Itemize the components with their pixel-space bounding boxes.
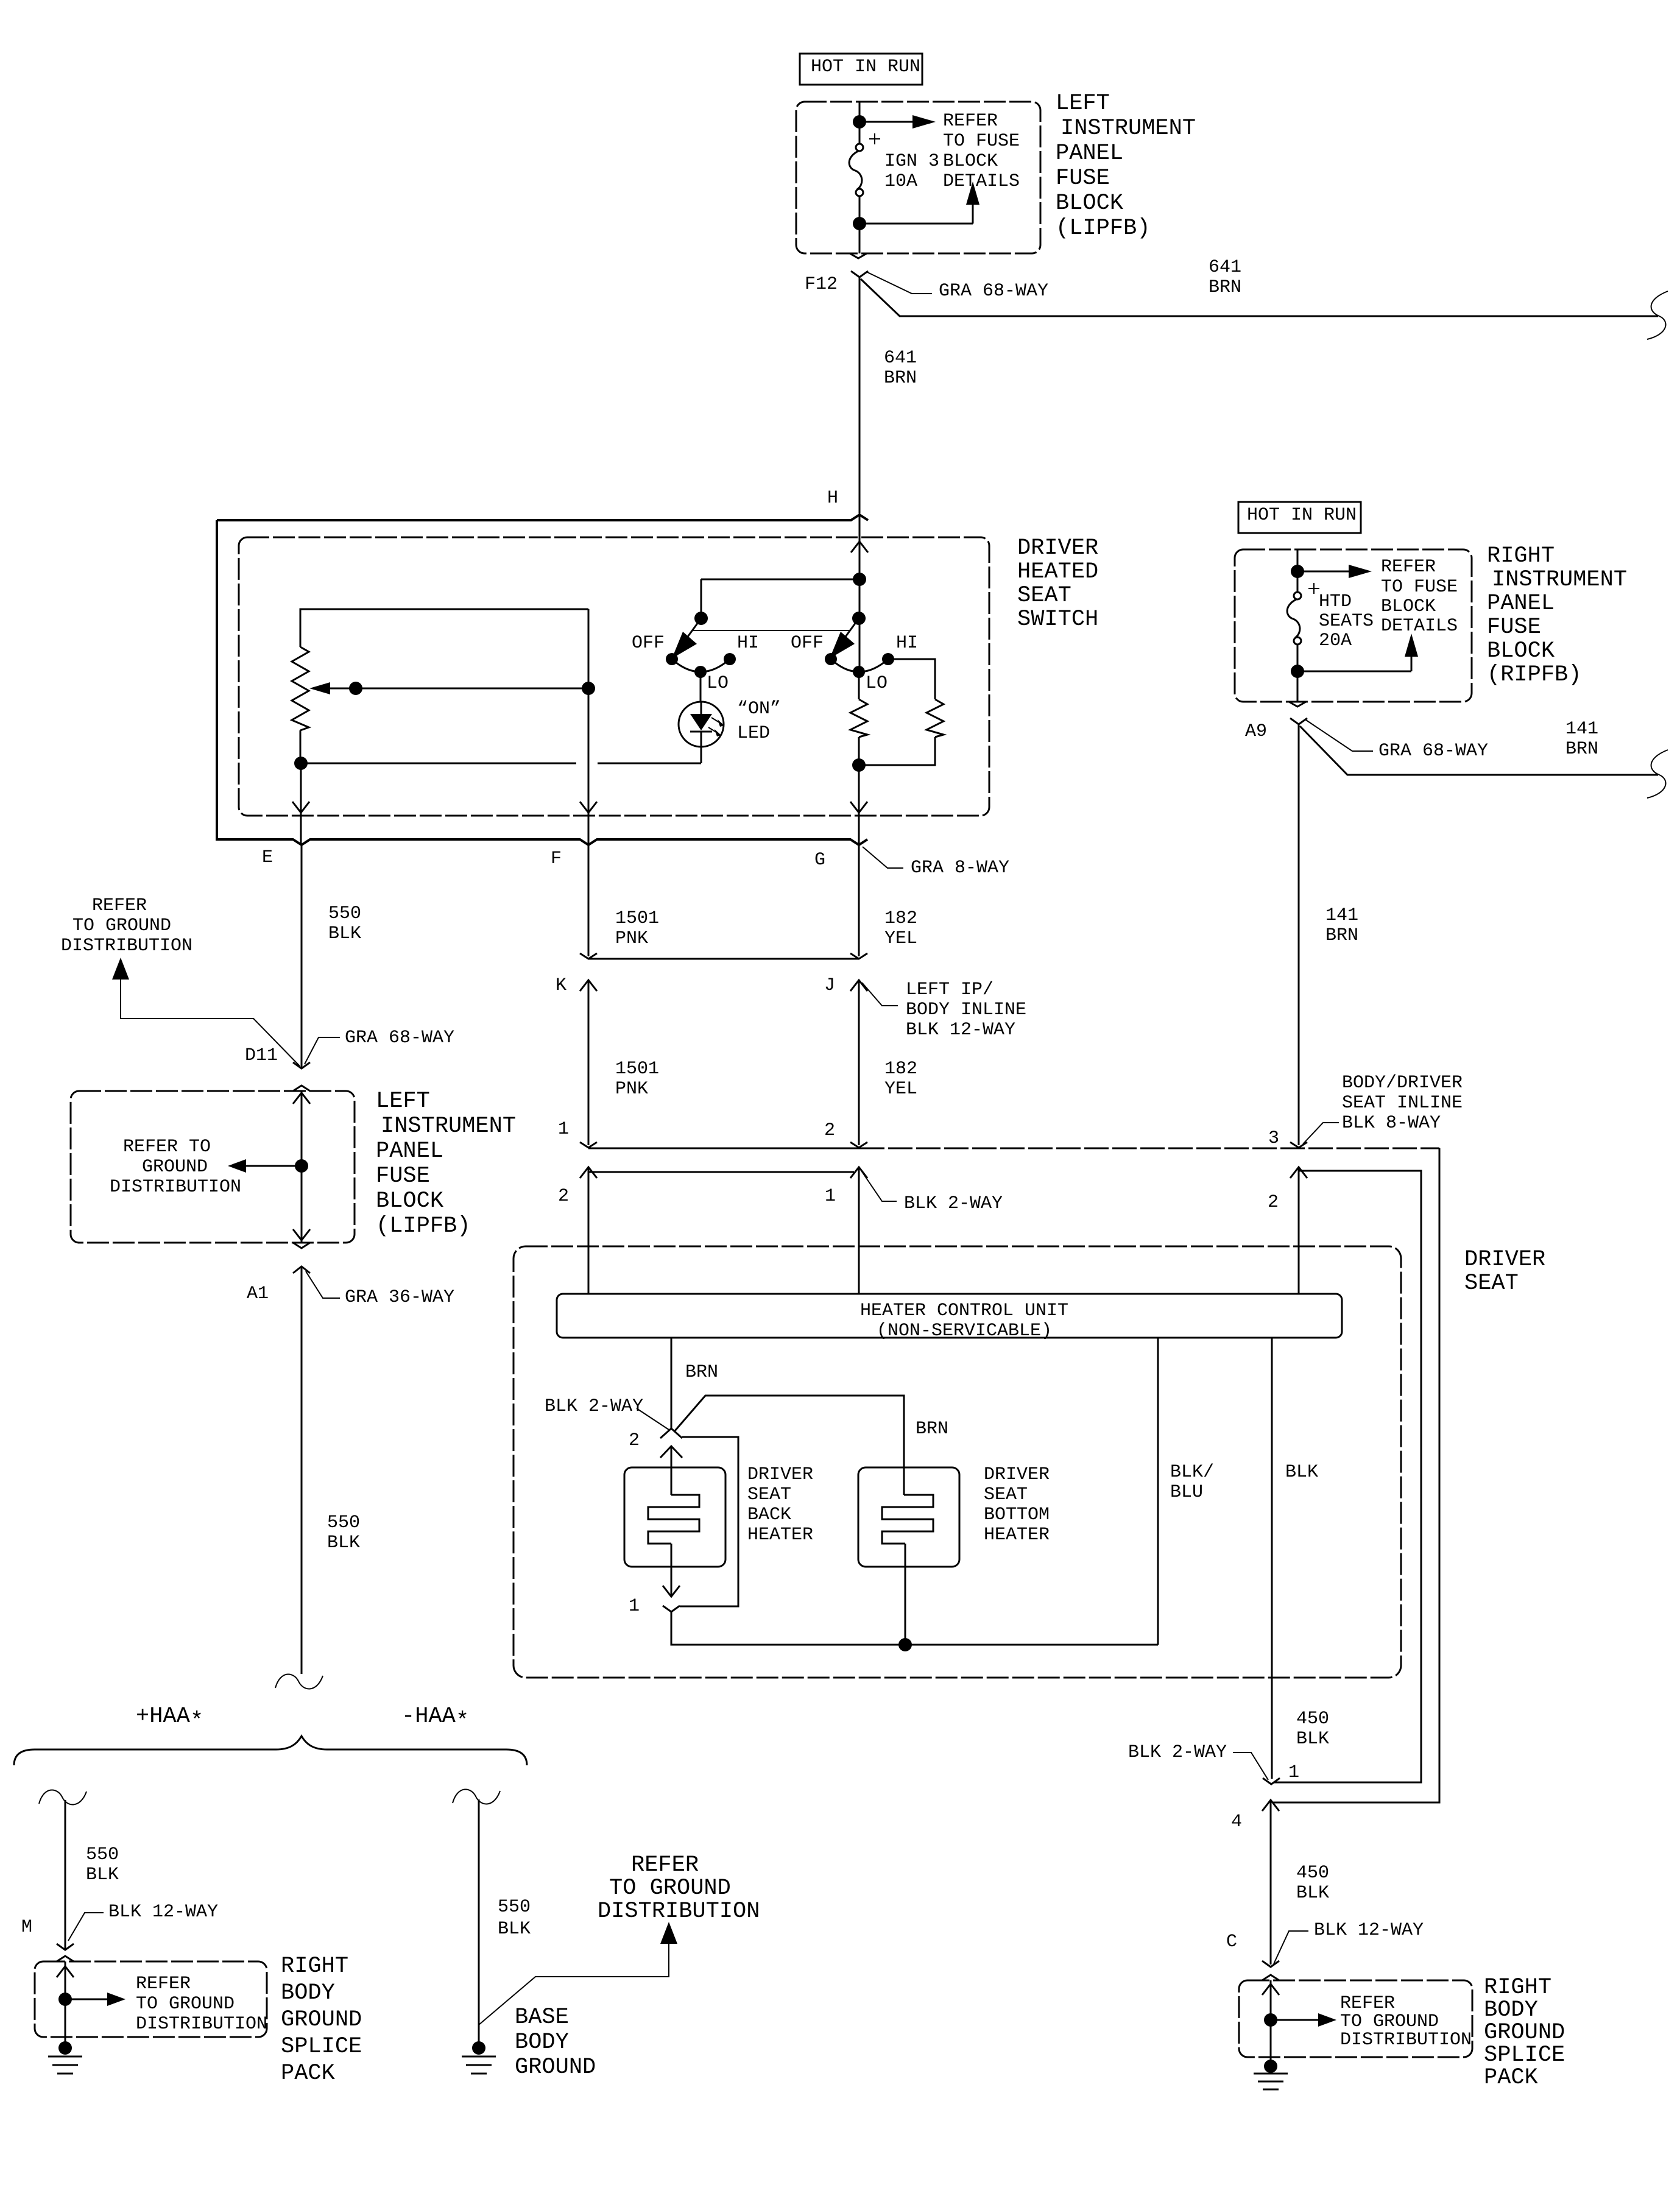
ground (left splice pack) (48, 2037, 82, 2074)
wire BRN heater control to connector 2 (671, 1338, 718, 1428)
svg-text:PNK: PNK (615, 1079, 648, 1100)
svg-text:550: 550 (328, 903, 361, 924)
svg-text:BLK 12-WAY: BLK 12-WAY (1314, 1920, 1424, 1941)
svg-text:PACK: PACK (281, 2061, 336, 2086)
svg-text:(RIPFB): (RIPFB) (1487, 662, 1581, 688)
wire 641 BRN off-page to right (861, 257, 1668, 339)
svg-text:LO: LO (707, 673, 729, 694)
leader BODY/DRIVER SEAT INLINE BLK 8-WAY (1303, 1073, 1463, 1144)
switch coupling line (692, 630, 851, 631)
svg-text:BLK: BLK (327, 1533, 360, 1553)
leader BLK 2-WAY (bottom right) (1128, 1742, 1268, 1780)
svg-text:2: 2 (558, 1186, 569, 1207)
svg-text:BRN: BRN (1325, 925, 1358, 946)
potentiometer wiper arm (309, 682, 595, 695)
driver heated seat switch outer boundary (217, 520, 1098, 845)
svg-text:RIGHT: RIGHT (1484, 1975, 1551, 2000)
svg-text:SPLICE: SPLICE (281, 2034, 362, 2060)
svg-text:450: 450 (1296, 1863, 1329, 1883)
svg-text:DRIVER: DRIVER (1464, 1247, 1545, 1273)
svg-text:HEATED: HEATED (1017, 559, 1098, 585)
svg-text:TO GROUND: TO GROUND (72, 916, 171, 936)
svg-text:BODY INLINE: BODY INLINE (906, 1000, 1026, 1020)
wire from H into switch (851, 515, 868, 618)
svg-text:YEL: YEL (884, 1079, 917, 1100)
svg-text:BODY: BODY (1484, 1997, 1538, 2023)
svg-text:LEFT: LEFT (1056, 91, 1110, 116)
svg-text:SEAT: SEAT (1017, 583, 1071, 609)
DRIVER SEAT label (1464, 1247, 1545, 1296)
svg-text:TO FUSE: TO FUSE (943, 131, 1020, 152)
splice pack internal wire and arrow (left) (57, 1961, 267, 2037)
svg-text:FUSE: FUSE (1056, 166, 1110, 191)
terminals E F G labels (262, 847, 825, 870)
svg-text:LEFT: LEFT (376, 1089, 430, 1114)
svg-text:FUSE: FUSE (376, 1163, 430, 1189)
node H (217, 488, 868, 520)
svg-text:F: F (551, 849, 562, 869)
wires from pins into heater control unit (588, 1167, 859, 1294)
svg-text:PACK: PACK (1484, 2065, 1539, 2091)
leader GRA 68-WAY (A9) (1306, 720, 1488, 761)
svg-text:(LIPFB): (LIPFB) (1056, 216, 1150, 241)
switch 1 (LED) pivot and blade (672, 612, 708, 658)
svg-text:1: 1 (825, 1186, 836, 1207)
svg-text:641: 641 (1209, 257, 1241, 278)
inline 8-way wire loop to pin 4 (1273, 1148, 1439, 1802)
svg-text:3: 3 (1268, 1128, 1279, 1149)
wire pot top to terminal F (580, 609, 597, 845)
svg-text:REFER: REFER (92, 895, 147, 916)
refer to fuse block details (right) with arrows (1297, 557, 1458, 671)
svg-text:HEATER: HEATER (984, 1525, 1050, 1545)
connector A9 break (1245, 702, 1307, 742)
svg-text:TO FUSE: TO FUSE (1381, 577, 1458, 598)
wire pot bottom to terminal E (292, 763, 309, 845)
svg-text:(NON-SERVICABLE): (NON-SERVICABLE) (877, 1321, 1052, 1341)
connector M break (21, 1917, 74, 1950)
svg-text:2: 2 (1268, 1192, 1279, 1213)
F12 terminal and connector break (805, 253, 868, 295)
svg-text:SEAT: SEAT (747, 1485, 791, 1505)
node J (824, 975, 867, 996)
leader BLK 12-WAY (C) (1274, 1920, 1424, 1964)
svg-text:A9: A9 (1245, 721, 1267, 742)
svg-text:OFF: OFF (632, 633, 665, 654)
connector break 4 (1231, 1800, 1329, 1965)
left instrument panel fuse block LIPFB (ground side box) (71, 1086, 516, 1248)
svg-text:BLK: BLK (1296, 1883, 1329, 1904)
svg-text:BOTTOM: BOTTOM (984, 1505, 1050, 1525)
svg-text:INSTRUMENT: INSTRUMENT (381, 1114, 516, 1139)
svg-text:GROUND: GROUND (515, 2055, 596, 2080)
svg-text:GRA 8-WAY: GRA 8-WAY (911, 858, 1009, 878)
refer to fuse block details (left) with arrows (859, 111, 1020, 224)
wire 641 BRN from F12 down to H (859, 277, 917, 514)
svg-text:DISTRIBUTION: DISTRIBUTION (598, 1899, 760, 1924)
svg-text:BLOCK: BLOCK (1487, 638, 1555, 664)
svg-text:20A: 20A (1319, 630, 1352, 651)
svg-text:HEATER CONTROL UNIT: HEATER CONTROL UNIT (860, 1301, 1068, 1321)
wire BRN branch to seat bottom heater (674, 1396, 948, 1495)
switch 2 (heater) pivot and blade (830, 612, 866, 672)
svg-text:*: * (456, 1709, 469, 1734)
svg-text:OFF: OFF (791, 633, 824, 654)
refer to ground distribution (upper left) (61, 895, 300, 1066)
svg-text:DISTRIBUTION: DISTRIBUTION (61, 936, 192, 956)
svg-text:182: 182 (884, 908, 917, 929)
svg-text:BLK/: BLK/ (1170, 1462, 1214, 1483)
svg-text:LEFT IP/: LEFT IP/ (906, 980, 994, 1000)
connector D11 break (245, 1045, 310, 1068)
leader GRA 68-WAY (D11) (305, 1028, 454, 1064)
right instrument panel fuse block RIPFB component box (1235, 543, 1627, 702)
svg-text:DRIVER: DRIVER (984, 1464, 1050, 1485)
svg-text:F12: F12 (805, 274, 838, 295)
svg-text:M: M (21, 1917, 32, 1938)
svg-text:PANEL: PANEL (1056, 141, 1123, 166)
svg-text:-HAA: -HAA (401, 1704, 456, 1729)
svg-text:HEATER: HEATER (747, 1525, 813, 1545)
svg-text:BLOCK: BLOCK (376, 1188, 444, 1214)
brace +HAA* / -HAA* (14, 1704, 527, 1765)
svg-text:182: 182 (884, 1059, 917, 1079)
wire 550 BLK from A1 down (275, 1266, 360, 1689)
svg-text:2: 2 (629, 1430, 640, 1451)
svg-text:G: G (814, 850, 825, 870)
svg-text:GRA 68-WAY: GRA 68-WAY (345, 1028, 454, 1048)
wire inside LIPFB with ground distribution arrow (110, 1091, 310, 1243)
svg-text:HOT IN RUN: HOT IN RUN (1247, 505, 1357, 526)
svg-text:BODY: BODY (281, 1980, 335, 2006)
right body ground splice pack box (1239, 1975, 1565, 2091)
svg-text:4: 4 (1231, 1812, 1242, 1832)
svg-text:BRN: BRN (916, 1419, 948, 1439)
svg-text:450: 450 (1296, 1709, 1329, 1729)
svg-text:1: 1 (629, 1596, 640, 1617)
svg-text:HTD: HTD (1319, 591, 1352, 612)
svg-text:BLK 2-WAY: BLK 2-WAY (545, 1396, 643, 1417)
svg-text:SEAT INLINE: SEAT INLINE (1342, 1093, 1463, 1114)
connector break 2 (BLK 2-WAY) (629, 1428, 682, 1458)
svg-text:550: 550 (327, 1513, 360, 1533)
left instrument panel fuse block LIPFB (top component box) (796, 91, 1196, 253)
svg-text:BLU: BLU (1170, 1482, 1203, 1503)
svg-text:J: J (824, 975, 835, 996)
svg-text:BRN: BRN (884, 368, 917, 389)
right body ground splice pack box (left) (35, 1954, 362, 2086)
wire 182 YEL terminal G to J (850, 845, 917, 959)
wire 550 BLK terminal E to D11 (302, 845, 361, 1068)
connector break 1 (element return) (629, 1586, 680, 1617)
svg-text:K: K (556, 975, 566, 996)
wire 1501 PNK K to pin 1 (558, 980, 659, 1148)
svg-text:2: 2 (824, 1120, 835, 1141)
svg-text:PANEL: PANEL (376, 1139, 443, 1164)
wire LED to bottom rail (301, 763, 701, 764)
wire BLK/BLU heater control to rail (1158, 1338, 1214, 1645)
svg-text:DRIVER: DRIVER (1017, 535, 1098, 561)
svg-text:GROUND: GROUND (142, 1157, 208, 1177)
switch inner detail box (239, 537, 989, 816)
svg-text:A1: A1 (247, 1283, 269, 1304)
svg-text:BLK 12-WAY: BLK 12-WAY (108, 1902, 218, 1922)
leader GRA 36-WAY (A1) (306, 1271, 454, 1308)
base body ground symbol (462, 2005, 596, 2080)
svg-text:DISTRIBUTION: DISTRIBUTION (136, 2014, 267, 2035)
svg-text:GRA 36-WAY: GRA 36-WAY (345, 1287, 454, 1308)
LED "ON" indicator (679, 672, 781, 763)
svg-text:LO: LO (866, 673, 888, 694)
seat connector pin 2 to heater control unit (1268, 1167, 1421, 1782)
wire 550 BLK (+HAA) down to M (39, 1790, 119, 1949)
svg-text:SPLICE: SPLICE (1484, 2042, 1565, 2068)
svg-text:TO GROUND: TO GROUND (609, 1876, 731, 1901)
left IP body inline connector face (588, 958, 859, 960)
svg-text:GROUND: GROUND (281, 2007, 362, 2033)
svg-text:BLK 2-WAY: BLK 2-WAY (1128, 1742, 1227, 1763)
svg-text:REFER: REFER (1340, 1993, 1395, 2014)
svg-text:BLK: BLK (86, 1865, 119, 1885)
svg-text:SEAT: SEAT (984, 1485, 1028, 1505)
switch 2 contacts OFF LO HI (791, 633, 918, 694)
connector C break (1226, 1932, 1279, 1967)
svg-text:*: * (190, 1709, 203, 1734)
svg-text:PNK: PNK (615, 928, 648, 949)
svg-text:BRN: BRN (685, 1362, 718, 1383)
svg-text:RIGHT: RIGHT (281, 1954, 348, 1979)
leader BLK 2-WAY (seat) (545, 1396, 669, 1430)
wire 141 BRN off-page to right (1300, 719, 1668, 798)
heater control unit (557, 1294, 1342, 1341)
wire element return to ground rail (671, 1612, 1158, 1651)
svg-text:BODY/DRIVER: BODY/DRIVER (1342, 1073, 1463, 1093)
node K (556, 975, 597, 996)
switch 1 contacts OFF LO HI (632, 633, 759, 694)
wire branch to switch 1 (701, 579, 859, 618)
svg-text:+HAA: +HAA (136, 1704, 191, 1729)
svg-text:REFER: REFER (136, 1974, 191, 1994)
svg-text:550: 550 (86, 1845, 119, 1865)
svg-text:1501: 1501 (615, 1059, 659, 1079)
svg-text:YEL: YEL (884, 928, 917, 949)
wire 550 BLK (-HAA) down to base body ground (453, 1789, 531, 2025)
svg-text:D11: D11 (245, 1045, 278, 1066)
svg-text:BLK: BLK (328, 923, 361, 944)
wire 182 YEL J to pin 2 (824, 980, 917, 1148)
svg-text:REFER: REFER (943, 111, 998, 132)
svg-text:BASE: BASE (515, 2005, 569, 2030)
connector A1 break (247, 1266, 310, 1304)
fuse HTD SEATS 20A (1287, 549, 1374, 702)
svg-text:641: 641 (884, 348, 917, 369)
svg-text:DETAILS: DETAILS (1381, 616, 1458, 637)
svg-text:SEAT: SEAT (1464, 1271, 1519, 1296)
wire 141 BRN A9 down to pin 3 (1268, 724, 1358, 1149)
svg-text:10A: 10A (884, 171, 917, 192)
svg-text:“ON”: “ON” (737, 699, 781, 719)
svg-text:141: 141 (1325, 905, 1358, 926)
svg-text:E: E (262, 847, 273, 868)
svg-text:DRIVER: DRIVER (747, 1464, 813, 1485)
svg-text:BLOCK: BLOCK (1381, 596, 1436, 617)
svg-text:GRA 68-WAY: GRA 68-WAY (1378, 741, 1488, 761)
svg-text:BLOCK: BLOCK (1056, 191, 1124, 216)
HOT IN RUN label box (left) (800, 54, 922, 85)
wire 1501 PNK terminal F to K (580, 845, 659, 959)
svg-text:BLK 8-WAY: BLK 8-WAY (1342, 1113, 1441, 1134)
wire BLK heater control out of seat (1272, 1338, 1329, 1779)
svg-text:BLOCK: BLOCK (943, 151, 998, 172)
svg-text:BACK: BACK (747, 1505, 791, 1525)
svg-text:BLK: BLK (498, 1919, 531, 1940)
svg-text:BRN: BRN (1565, 739, 1598, 760)
heater control connector pins 2 and 1 (558, 1167, 867, 1207)
potentiometer (dimmer) (292, 609, 588, 770)
refer to ground distribution (bottom center) (479, 1852, 760, 2025)
svg-text:141: 141 (1565, 719, 1598, 740)
resistor HI path (852, 659, 944, 772)
svg-text:REFER: REFER (631, 1852, 699, 1878)
svg-text:BODY: BODY (515, 2030, 569, 2055)
svg-text:1501: 1501 (615, 908, 659, 929)
svg-text:INSTRUMENT: INSTRUMENT (1061, 116, 1196, 141)
leader GRA 8-WAY (G) (863, 847, 1009, 878)
svg-text:BLK: BLK (1296, 1729, 1329, 1749)
leader BLK 2-WAY (middle) (861, 1171, 1003, 1214)
svg-text:LED: LED (737, 723, 770, 744)
driver seat bottom heater element (858, 1464, 1050, 1645)
leader LEFT IP/BODY INLINE BLK 12-WAY (862, 980, 1026, 1040)
svg-text:550: 550 (498, 1897, 531, 1918)
svg-text:TO GROUND: TO GROUND (136, 1994, 235, 2014)
svg-text:PANEL: PANEL (1487, 591, 1555, 616)
body driver seat inline connector line (588, 1148, 1439, 1149)
resistor LO path (850, 672, 867, 765)
svg-text:SEATS: SEATS (1319, 611, 1374, 632)
svg-text:DISTRIBUTION: DISTRIBUTION (110, 1177, 241, 1198)
svg-text:RIGHT: RIGHT (1487, 543, 1555, 569)
svg-text:HI: HI (896, 633, 918, 654)
svg-text:SWITCH: SWITCH (1017, 607, 1098, 632)
svg-text:BRN: BRN (1209, 277, 1241, 298)
splice pack internal wire and arrow (1262, 1980, 1472, 2057)
svg-text:(LIPFB): (LIPFB) (376, 1213, 470, 1239)
driver seat assembly box (514, 1246, 1401, 1678)
HOT IN RUN label box (right) (1238, 502, 1361, 533)
element loop wire (680, 1437, 738, 1606)
driver seat back heater element (624, 1446, 813, 1597)
svg-text:DISTRIBUTION: DISTRIBUTION (1340, 2030, 1472, 2050)
svg-text:REFER: REFER (1381, 557, 1436, 577)
fuse IGN 3 10A (849, 102, 939, 253)
leader GRA 68-WAY (F12) (867, 272, 1048, 302)
svg-text:HI: HI (737, 633, 759, 654)
connector break 1 (450 BLK 2-way) (1263, 1762, 1299, 1784)
svg-text:BLK 2-WAY: BLK 2-WAY (904, 1193, 1003, 1214)
svg-text:DETAILS: DETAILS (943, 171, 1020, 192)
svg-text:INSTRUMENT: INSTRUMENT (1492, 567, 1627, 593)
wire switch 2 to terminal G (850, 765, 867, 845)
svg-text:REFER TO: REFER TO (123, 1137, 211, 1157)
svg-text:1: 1 (1288, 1762, 1299, 1783)
svg-text:TO GROUND: TO GROUND (1340, 2011, 1439, 2032)
svg-text:GROUND: GROUND (1484, 2020, 1565, 2046)
svg-text:1: 1 (558, 1119, 569, 1140)
leader BLK 12-WAY (M) (68, 1902, 218, 1941)
ground (right splice pack) (1254, 2057, 1288, 2089)
svg-text:BLK: BLK (1285, 1462, 1318, 1483)
svg-text:FUSE: FUSE (1487, 615, 1541, 640)
svg-text:BLK 12-WAY: BLK 12-WAY (906, 1020, 1015, 1040)
svg-text:C: C (1226, 1932, 1237, 1952)
svg-text:H: H (827, 488, 838, 509)
svg-text:GRA 68-WAY: GRA 68-WAY (939, 281, 1048, 302)
svg-text:HOT IN RUN: HOT IN RUN (811, 57, 920, 77)
svg-text:IGN 3: IGN 3 (884, 151, 939, 172)
